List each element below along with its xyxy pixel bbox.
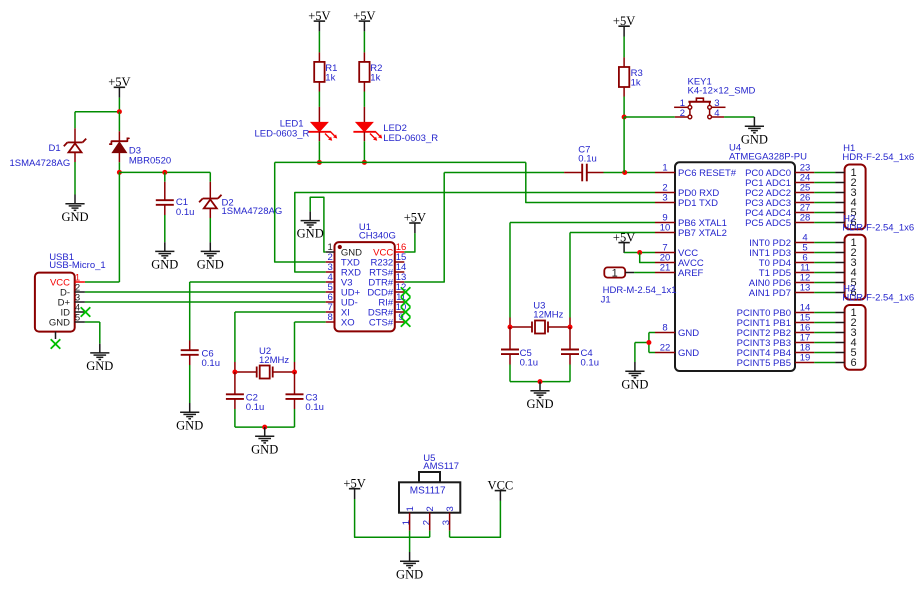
U1 pin name UD+ (341, 288, 361, 299)
wire R3 to key node (623, 87, 625, 117)
U4 pin name PB7 XTAL2 (678, 228, 727, 239)
H2 pin 5 number (851, 277, 857, 289)
USB1 pin 5 stub (75, 321, 85, 323)
U4 pin name VCC (678, 248, 698, 259)
label LED2 value LED-0603_R (383, 133, 438, 144)
label H1 value HDR-F-2.54_1x6 (842, 152, 914, 163)
U1 pin 15 stub (395, 261, 404, 263)
wire U4 to H3 pin 6 (814, 362, 835, 364)
wire U4 to H2 pin 1 (814, 242, 835, 244)
wire U1 V3 to C6 (190, 282, 326, 350)
node U2 right junction (292, 370, 297, 375)
H3 pin 3 number (851, 327, 857, 339)
U4 pin 6 stub (795, 262, 814, 264)
svg-text:GND: GND (49, 317, 70, 328)
U4 pin 19 number (800, 353, 811, 364)
svg-text:PC5 ADC5: PC5 ADC5 (745, 218, 791, 229)
svg-text:2: 2 (421, 520, 432, 525)
label KEY1 (688, 77, 712, 88)
H3 pin 6 number (851, 357, 857, 369)
wire U4 to H3 pin 5 (814, 352, 835, 354)
label H3 value HDR-F-2.54_1x6 (842, 293, 914, 304)
U4 pin 24 number (800, 173, 811, 184)
svg-text:GND: GND (741, 132, 768, 146)
label D2 value 1SMA4728AG (222, 206, 283, 217)
wire U4 to H2 pin 2 (814, 252, 835, 254)
capacitor C4 0.1u (561, 350, 579, 355)
svg-text:1SMA4728AG: 1SMA4728AG (222, 206, 283, 217)
wire U4 GND pins to ground (635, 333, 655, 363)
wire key node down to reset row (623, 117, 625, 173)
wire node B to C1/D2 (119, 171, 210, 173)
label H2 (843, 213, 855, 224)
svg-text:0.1u: 0.1u (581, 358, 600, 369)
svg-text:0.1u: 0.1u (176, 207, 195, 218)
wire U4 to H1 pin 6 (814, 222, 835, 224)
U4 pin 27 number (800, 203, 811, 214)
label D3 value MBR0520 (129, 155, 171, 166)
svg-text:2: 2 (425, 506, 436, 511)
U4 pin 26 number (800, 193, 811, 204)
H3 pin 1 stub (835, 312, 845, 314)
wire C7 to reset node (587, 172, 655, 174)
svg-text:1k: 1k (631, 78, 641, 89)
node LED2 junction (362, 160, 367, 165)
wire +5V to U5 pin2 (355, 499, 430, 537)
U4 pin 19 stub (795, 362, 814, 364)
wire C5 to ground rail (509, 354, 511, 382)
H1 pin 1 stub (835, 172, 845, 174)
U5 pin 3 stub (449, 513, 451, 531)
U4 pin name PC1 ADC1 (745, 178, 791, 189)
USB1 pin name D- (60, 288, 70, 299)
label C6 value 0.1u (202, 358, 221, 369)
U1 pin 11 stub (395, 301, 404, 303)
USB1 pin 2 number (75, 282, 80, 293)
H1 pin 1 number (851, 167, 857, 179)
U4 pin name PC0 ADC0 (745, 168, 791, 179)
label R1 (325, 63, 337, 74)
U1 pin name RXD (341, 268, 361, 279)
label J1 (601, 294, 611, 305)
H3 pin 2 number (851, 317, 857, 329)
U4 pin 17 stub (795, 342, 814, 344)
U1 pin name VCC (373, 248, 393, 259)
wire U4 to H1 pin 1 (814, 172, 835, 174)
U4 pin 20 number (660, 253, 671, 264)
label C1 value 0.1u (176, 207, 195, 218)
svg-text:GND: GND (297, 227, 324, 241)
wire U1 XO to crystal (295, 322, 326, 372)
wire U4 XTAL2 to U3 (570, 233, 655, 328)
U1 pin 15 number (396, 252, 407, 263)
IC U4 ATMEGA328P-PU body (675, 162, 795, 371)
KEY1 pin 4 number (714, 108, 719, 119)
H2 pin 6 number (851, 287, 857, 299)
H1 pin 3 number (851, 187, 857, 199)
ground GND (C1) (151, 242, 178, 271)
wire U4 to H3 pin 1 (814, 312, 835, 314)
U4 pin 4 stub (795, 242, 814, 244)
U4 pin 16 stub (795, 332, 814, 334)
no-connect X on U1 pin 11 RI# (401, 297, 411, 307)
U4 pin 10 number (660, 223, 671, 234)
U4 pin name PB6 XTAL1 (678, 218, 727, 229)
U1 pin 5 stub (326, 291, 335, 293)
wire +5V to U1 pin16 (404, 233, 415, 252)
U5 part name MS1117 (410, 486, 446, 497)
diode D2 (zener 1SMA4728AG) (199, 195, 221, 209)
node A junction (117, 109, 122, 114)
H3 pin 1 number (851, 307, 857, 319)
H1 pin 5 stub (835, 212, 845, 214)
U1 pin 16 stub (395, 251, 404, 253)
svg-text:D1: D1 (49, 143, 61, 154)
svg-text:GND: GND (396, 567, 423, 581)
label C3 value 0.1u (305, 402, 324, 413)
svg-text:AREF: AREF (678, 268, 704, 279)
U1 pin 9 stub (395, 321, 404, 323)
U4 pin name PC6 RESET# (678, 168, 737, 179)
H2 pin 4 number (851, 267, 857, 279)
USB1 pin 5 number (75, 312, 80, 323)
svg-text:0.1u: 0.1u (202, 358, 221, 369)
svg-text:J1: J1 (601, 294, 611, 305)
node R3/KEY1 junction (622, 115, 627, 120)
U1 pin name DSR# (368, 308, 394, 319)
USB1 pin 2 stub (75, 291, 85, 293)
H1 pin 2 stub (835, 182, 845, 184)
U4 pin 12 number (800, 273, 811, 284)
svg-text:4: 4 (714, 108, 719, 119)
U1 pin 12 stub (395, 291, 404, 293)
svg-text:0.1u: 0.1u (578, 154, 597, 165)
U4 pin 28 number (800, 213, 811, 224)
U4 pin 8 stub (655, 332, 675, 334)
wire +5V to node A (118, 98, 120, 112)
U1 pin name DTR# (368, 278, 394, 289)
U1 pin 4 number (328, 272, 333, 283)
capacitor C7 0.1u (582, 164, 587, 182)
U5 pin 2 stub (429, 513, 431, 531)
power symbol +5V (input rail) (108, 75, 130, 98)
wire USB D- to U1 UD+ (85, 291, 326, 293)
U4 pin name GND (678, 328, 699, 339)
wire J1 to U4 AREF (634, 272, 655, 274)
U1 pin 8 number (328, 312, 333, 323)
USB1 pin 4 number (75, 302, 80, 313)
node U3 left junction (508, 325, 513, 330)
U1 pin name UD- (341, 298, 358, 309)
svg-text:2: 2 (680, 108, 685, 119)
label C2 (246, 393, 258, 404)
svg-text:0.1u: 0.1u (520, 358, 539, 369)
label C4 value 0.1u (581, 358, 600, 369)
regulator U5 AMS117 tab (419, 472, 440, 482)
ground GND (U1 pin1) (297, 211, 324, 240)
label C7 (578, 145, 590, 156)
label U3 (533, 301, 545, 312)
node LED1 junction (317, 160, 322, 165)
wire node A to D1 branch (75, 111, 119, 113)
connector H3 HDR-F-2.54_1x6 body (845, 305, 866, 370)
capacitor C2 0.1u (226, 394, 244, 399)
U4 pin name PCINT0 PB0 (737, 308, 791, 319)
connector H1 HDR-F-2.54_1x6 body (845, 165, 866, 230)
label U3 value 12MHz (533, 310, 563, 321)
svg-text:XO: XO (341, 318, 355, 329)
U5 pin name 2 (rotated) (425, 506, 436, 511)
U4 pin name PCINT5 PB5 (737, 358, 791, 369)
label R2 value 1k (370, 73, 380, 84)
USB1 pin name GND (49, 317, 70, 328)
label LED2 (383, 123, 407, 134)
U1 pin 7 stub (326, 311, 335, 313)
U4 pin name GND (678, 348, 699, 359)
label C4 (581, 348, 593, 359)
USB1 pin 1 number (75, 272, 80, 283)
LED2 LED-0603_R (353, 122, 382, 140)
label D2 (222, 198, 234, 209)
KEY1 pin 1 number (680, 98, 685, 109)
svg-text:1: 1 (612, 267, 618, 279)
U4 pin 4 number (802, 233, 807, 244)
U4 pin 1 stub (655, 172, 675, 174)
U4 pin 26 stub (795, 202, 814, 204)
U1 pin name RI# (378, 298, 394, 309)
svg-text:12MHz: 12MHz (533, 310, 563, 321)
U5 pin 1 stub (409, 513, 411, 531)
wire C1 to ground (164, 205, 166, 242)
U4 pin 1 number (662, 163, 667, 174)
U4 pin name PCINT4 PB4 (737, 348, 791, 359)
label U4 value ATMEGA328P-PU (729, 152, 807, 163)
USB1 pin name VCC (50, 278, 70, 289)
svg-text:GND: GND (197, 258, 224, 272)
ground GND (USB1 pin5) (86, 344, 113, 373)
svg-text:1k: 1k (370, 73, 380, 84)
wire +5V to R3 (623, 37, 625, 68)
svg-text:PC6 RESET#: PC6 RESET# (678, 168, 737, 179)
node crystal ground junction (262, 425, 267, 430)
U4 pin 18 stub (795, 352, 814, 354)
label D1 value 1SMA4728AG (10, 158, 71, 169)
wire node A to D3 (118, 112, 120, 142)
ground GND (U2 caps) (251, 427, 278, 456)
label U2 value 12MHz (259, 355, 289, 366)
node U4 GND junction (646, 340, 651, 345)
label R3 (631, 68, 643, 79)
capacitor C3 0.1u (286, 394, 304, 399)
U4 pin name PCINT2 PB2 (737, 328, 791, 339)
label R2 (370, 63, 382, 74)
svg-text:3: 3 (445, 506, 456, 511)
U4 pin 25 number (800, 183, 811, 194)
wire USB GND to ground (85, 322, 100, 344)
diode D1 (zener 1SMA4728AG) (64, 139, 86, 153)
U1 pin 6 number (328, 292, 333, 303)
svg-text:0.1u: 0.1u (305, 402, 324, 413)
U1 pin 14 number (396, 262, 407, 273)
U1 pin 3 stub (326, 271, 335, 273)
U4 pin 14 number (800, 303, 811, 314)
wire U4 to H3 pin 2 (814, 322, 835, 324)
node reset junction (622, 170, 627, 175)
wire U4 to H2 pin 5 (814, 282, 835, 284)
wire U4 to H1 pin 5 (814, 212, 835, 214)
U4 pin 7 number (662, 243, 667, 254)
svg-text:GND: GND (678, 348, 699, 359)
svg-text:GND: GND (621, 377, 648, 391)
H2 pin 6 stub (835, 292, 845, 294)
U1 pin 8 stub (326, 321, 335, 323)
U1 pin name V3 (341, 278, 353, 289)
crystal U3 12MHz leads (510, 326, 570, 328)
U1 pin 9 number (398, 312, 403, 323)
H2 pin 2 stub (835, 252, 845, 254)
capacitor C5 lead (509, 327, 511, 350)
ground GND (D2) (197, 242, 224, 271)
connector H2 HDR-F-2.54_1x6 body (845, 235, 866, 300)
label C5 value 0.1u (520, 358, 539, 369)
ground GND (D1) (61, 195, 88, 224)
U4 pin 17 number (800, 333, 811, 344)
svg-text:CH340G: CH340G (359, 231, 396, 242)
U4 pin 11 stub (795, 272, 814, 274)
U4 pin 7 stub (655, 252, 675, 254)
svg-text:1SMA4728AG: 1SMA4728AG (10, 158, 71, 169)
U4 pin 13 number (800, 283, 811, 294)
U4 pin name PD1 TXD (678, 198, 718, 209)
wire LED2 cathode to serial wire (363, 132, 365, 163)
U1 pin 16 number (396, 242, 407, 253)
crystal U3 12MHz (532, 321, 548, 334)
power symbol +5V (U1 VCC) (404, 211, 426, 234)
U5 pin name 1 (rotated) (405, 506, 416, 511)
resistor R1 1k (314, 62, 324, 82)
U4 pin 27 stub (795, 212, 814, 214)
diode D3 (schottky MBR0520) (110, 138, 129, 152)
capacitor C2 lead (234, 372, 236, 394)
label LED1 value LED-0603_R (254, 128, 309, 139)
wire U4 to H2 pin 3 (814, 262, 835, 264)
resistor R3 1k (619, 67, 629, 87)
U4 pin name INT0 PD2 (749, 238, 791, 249)
label U5 value AMS117 (423, 461, 459, 472)
U1 pin 4 stub (326, 281, 335, 283)
U4 pin name PC4 ADC4 (745, 208, 791, 219)
wire C2 to ground rail (234, 399, 236, 427)
svg-text:K4-12×12_SMD: K4-12×12_SMD (688, 86, 756, 97)
svg-text:HDR-F-2.54_1x6: HDR-F-2.54_1x6 (842, 293, 914, 304)
H1 pin 6 stub (835, 222, 845, 224)
connector USB1 USB-Micro_1 body (35, 273, 75, 332)
U1 pin name RTS# (369, 268, 394, 279)
wire C6 to ground (189, 355, 191, 403)
svg-text:GND: GND (61, 210, 88, 224)
J1 pin stub (625, 272, 634, 274)
label U5 (423, 453, 435, 464)
svg-text:GND: GND (251, 442, 278, 456)
resistor R2 1k (359, 62, 369, 82)
U4 pin 21 number (660, 263, 671, 274)
svg-text:USB-Micro_1: USB-Micro_1 (49, 260, 105, 271)
wire R1 to LED1 (318, 82, 320, 122)
U1 pin name XI (341, 308, 350, 319)
label KEY1 value K4-12x12_SMD (688, 86, 756, 97)
U1 pin 7 number (328, 302, 333, 313)
wire U4 to H3 pin 3 (814, 332, 835, 334)
svg-text:AIN1 PD7: AIN1 PD7 (749, 288, 791, 299)
U4 pin 23 number (800, 163, 811, 174)
wire U5 pin3 to VCC (450, 501, 501, 537)
label U1 (359, 222, 371, 233)
U1 pin name R232 (370, 258, 393, 269)
power symbol +5V (R2) (353, 9, 375, 32)
ground GND (C6) (176, 403, 203, 432)
U4 pin name PCINT1 PB1 (737, 318, 791, 329)
capacitor C3 lead (294, 372, 296, 394)
label U2 (259, 346, 271, 357)
label H2 value HDR-F-2.54_1x6 (842, 223, 914, 234)
wire D3 anode to node B (118, 153, 120, 173)
svg-text:GND: GND (151, 258, 178, 272)
svg-text:GND: GND (526, 397, 553, 411)
U4 pin 18 number (800, 343, 811, 354)
node U2 left junction (232, 370, 237, 375)
H2 pin 3 number (851, 257, 857, 269)
H1 pin 4 stub (835, 202, 845, 204)
U4 pin 12 stub (795, 282, 814, 284)
svg-text:MS1117: MS1117 (410, 486, 446, 497)
U4 pin name AIN0 PD6 (749, 278, 791, 289)
wire D2 anode to ground (209, 208, 211, 242)
svg-text:ATMEGA328P-PU: ATMEGA328P-PU (729, 152, 807, 163)
wire node A down to D1 (74, 112, 76, 143)
wire +5V to R2 (363, 31, 365, 62)
LED1 LED-0603_R (308, 122, 337, 140)
U4 pin 24 stub (795, 182, 814, 184)
capacitor C1 top lead (164, 172, 166, 200)
USB1 pin 3 stub (75, 301, 85, 303)
U4 pin 22 number (660, 343, 671, 354)
label USB1 value USB-Micro_1 (49, 260, 105, 271)
ground GND (U4) (621, 362, 648, 391)
H3 pin 5 stub (835, 352, 845, 354)
wire +5V to R1 (318, 31, 320, 62)
U1 pin 1 number (328, 242, 333, 253)
U1 pin 5 number (328, 282, 333, 293)
label D3 (129, 146, 141, 157)
U4 pin 3 number (662, 193, 667, 204)
USB1 pin 1 stub (75, 281, 85, 283)
wire crystal ground rail (235, 426, 295, 428)
capacitor C1 0.1u (156, 200, 174, 205)
label C7 value 0.1u (578, 154, 597, 165)
svg-text:1: 1 (405, 506, 416, 511)
svg-text:GND: GND (176, 418, 203, 432)
H3 pin 4 number (851, 337, 857, 349)
H1 pin 2 number (851, 177, 857, 189)
svg-text:PB7 XTAL2: PB7 XTAL2 (678, 228, 727, 239)
U1 pin 14 stub (395, 271, 404, 273)
U4 pin name T1 PD5 (759, 268, 791, 279)
H3 pin 2 stub (835, 322, 845, 324)
USB1 pin name ID (61, 307, 71, 318)
U1 pin name XO (341, 318, 355, 329)
svg-text:HDR-M-2.54_1x1: HDR-M-2.54_1x1 (603, 285, 677, 296)
KEY1 pin 3 number (714, 98, 719, 109)
